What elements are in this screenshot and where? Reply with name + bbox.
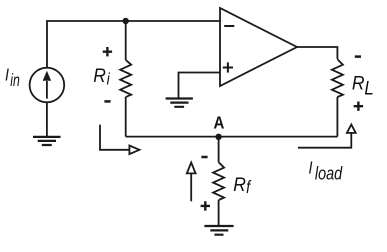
svg-text:load: load bbox=[315, 163, 343, 184]
resistor Ri bbox=[120, 60, 131, 97]
op-amp minus marking bbox=[224, 25, 234, 27]
svg-text:i: i bbox=[107, 70, 111, 89]
op-amp U1 bbox=[220, 8, 297, 86]
plus sign of Ri bbox=[103, 47, 112, 56]
svg-text:R: R bbox=[93, 64, 106, 86]
svg-text:R: R bbox=[233, 173, 246, 195]
wire op-amp noninverting input to ground bbox=[179, 73, 221, 98]
svg-text:I: I bbox=[309, 159, 313, 178]
svg-text:L: L bbox=[364, 77, 373, 98]
resistor Rf bbox=[213, 162, 224, 200]
op-amp plus marking bbox=[223, 62, 233, 72]
svg-text:I: I bbox=[5, 66, 9, 85]
minus sign of RL bbox=[355, 55, 361, 58]
plus sign of RL bbox=[354, 102, 363, 111]
input current direction arrow (L-shaped) bbox=[100, 125, 129, 150]
wire current source to ground bbox=[46, 102, 48, 136]
wire op-amp output to RL bbox=[297, 47, 337, 59]
I_load current arrow bbox=[298, 134, 351, 148]
svg-text:A: A bbox=[214, 113, 225, 132]
wire Ri to bottom bus bbox=[125, 97, 127, 137]
minus sign of Ri bbox=[104, 100, 110, 103]
wire RL to bottom bus bbox=[336, 97, 338, 137]
Rf current arrow up bbox=[190, 174, 192, 201]
ground under current source bbox=[33, 137, 61, 145]
svg-text:in: in bbox=[10, 71, 20, 91]
plus sign of Rf bbox=[201, 201, 210, 210]
resistor RL bbox=[332, 59, 343, 97]
wire top from current source to op-amp inverting input bbox=[47, 21, 220, 68]
node junction dot top bbox=[123, 18, 129, 24]
wire Rf to ground bbox=[218, 200, 220, 226]
wire node A to Rf bbox=[218, 137, 220, 163]
bottom bus wire bbox=[126, 136, 338, 138]
ground at op-amp input bbox=[166, 99, 193, 107]
current source I_in circle bbox=[30, 68, 65, 103]
ground under Rf bbox=[204, 226, 233, 235]
wire junction to resistor Ri bbox=[125, 21, 127, 60]
svg-text:f: f bbox=[246, 178, 251, 198]
node A junction dot bbox=[215, 134, 221, 140]
minus sign of Rf bbox=[201, 156, 207, 159]
current source arrow bbox=[46, 81, 48, 99]
svg-text:R: R bbox=[352, 72, 365, 94]
